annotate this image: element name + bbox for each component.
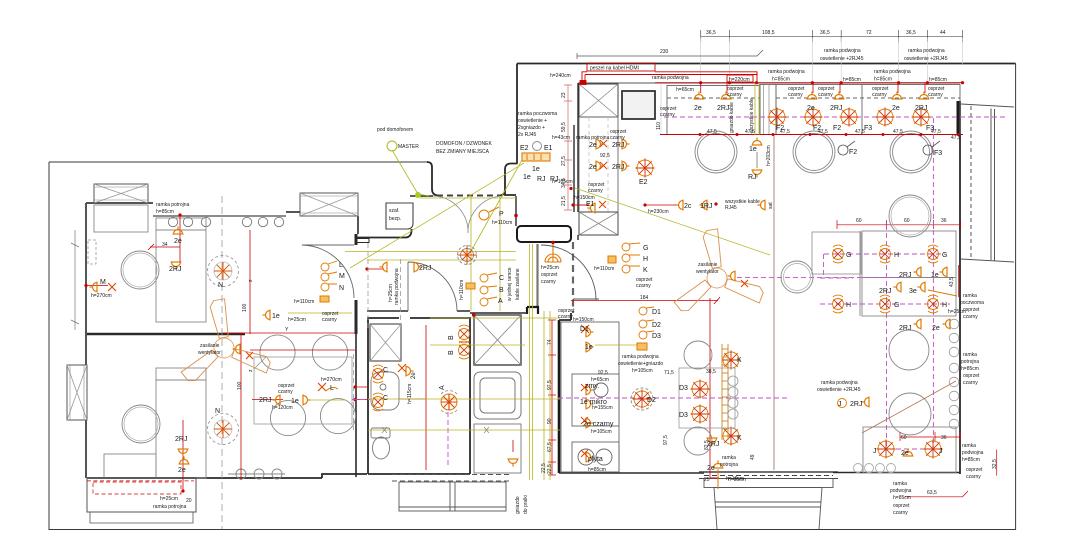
poufs kitchen [684, 341, 712, 369]
svg-text:kable zasilane: kable zasilane [515, 268, 521, 300]
svg-text:h=203cm: h=203cm [766, 145, 772, 166]
sockets bedroom1 [173, 227, 184, 235]
svg-text:100: 100 [242, 303, 248, 312]
door vestibule arcs [433, 196, 503, 233]
svg-text:2RJ: 2RJ [899, 272, 911, 279]
sockets kitchen top row [694, 92, 705, 100]
svg-text:2RJ: 2RJ [259, 397, 271, 404]
text legend G H K [643, 245, 648, 274]
svg-text:N: N [218, 282, 223, 289]
svg-text:184: 184 [640, 295, 649, 301]
svg-text:1e: 1e [291, 398, 299, 405]
svg-text:h=240cm: h=240cm [550, 73, 571, 79]
svg-text:1e: 1e [272, 313, 280, 320]
dining nook rect [254, 357, 352, 424]
svg-text:36,5: 36,5 [706, 30, 716, 36]
svg-text:ramka podwojna: ramka podwojna [908, 48, 945, 54]
svg-text:K: K [737, 435, 742, 442]
svg-text:K: K [737, 357, 742, 364]
svg-text:59,5: 59,5 [561, 122, 567, 132]
text E legend top [518, 111, 557, 138]
svg-text:63,5: 63,5 [927, 490, 937, 496]
svg-text:h=85cm: h=85cm [772, 77, 790, 83]
wall: kitchen top [517, 63, 1016, 65]
svg-text:MASTER: MASTER [398, 144, 419, 150]
svg-text:A: A [439, 385, 446, 390]
socket L orange box legend hall [320, 296, 329, 302]
sockets 2c 1RJ [676, 200, 684, 211]
svg-text:49: 49 [750, 454, 756, 460]
lamp P hall [458, 246, 477, 265]
svg-text:2RJ: 2RJ [175, 436, 187, 443]
svg-text:bezp.: bezp. [389, 216, 401, 222]
svg-text:1e: 1e [585, 344, 593, 351]
svg-text:h=85cm: h=85cm [156, 209, 174, 215]
svg-text:B: B [448, 350, 455, 355]
svg-text:2e: 2e [901, 450, 909, 457]
svg-text:h=25cm: h=25cm [388, 284, 394, 302]
socket bathroom wall pair [406, 366, 414, 377]
svg-text:F3: F3 [934, 150, 942, 157]
wall: hall-kitchen gray wall [536, 244, 538, 307]
svg-text:ramka podwojna: ramka podwojna [622, 354, 659, 360]
fridge box [622, 91, 655, 119]
svg-text:h=25cm: h=25cm [541, 265, 559, 271]
red dots top wall [699, 81, 964, 84]
text living [838, 252, 947, 457]
lamp E2 [636, 159, 655, 178]
svg-text:h=25cm: h=25cm [948, 309, 966, 315]
svg-text:60: 60 [901, 435, 907, 441]
svg-text:ramka potrojna: ramka potrojna [156, 202, 190, 208]
svg-text:h=43cm: h=43cm [552, 135, 570, 141]
svg-text:h=85cm: h=85cm [874, 77, 892, 83]
svg-text:do pralki: do pralki [523, 495, 529, 514]
red verticals left section dims [86, 215, 384, 491]
floor lamp circles living [889, 330, 929, 370]
shaft box bottom [579, 212, 618, 235]
svg-text:pod domofonem: pod domofonem [377, 127, 413, 133]
svg-text:h=25cm: h=25cm [160, 496, 178, 502]
svg-text:H: H [942, 302, 947, 309]
window left wall [67, 365, 87, 420]
svg-text:h=270cm: h=270cm [91, 293, 112, 299]
svg-text:h=120cm: h=120cm [272, 405, 293, 411]
svg-text:potrojna: potrojna [961, 359, 979, 365]
svg-text:E1: E1 [586, 201, 595, 208]
wall: kitchen bottom-left column wall [558, 320, 561, 473]
svg-text:2e: 2e [892, 105, 900, 112]
text 47,5 row [707, 129, 961, 141]
bathroom sink [371, 372, 399, 410]
svg-text:47,5: 47,5 [780, 129, 790, 135]
diagonal living [862, 381, 956, 433]
svg-text:czarny: czarny [872, 92, 887, 98]
legend C B A hall [480, 273, 497, 306]
kitchen sink unit [474, 372, 521, 419]
svg-text:2e: 2e [932, 325, 940, 332]
wall: kitchen left [505, 64, 517, 196]
svg-text:C: C [383, 395, 388, 402]
svg-text:2e: 2e [807, 105, 815, 112]
washing machine [474, 315, 521, 365]
lamps C bathroom [373, 365, 384, 383]
hall sconce socket [545, 244, 561, 262]
svg-text:B: B [448, 335, 455, 340]
socket D1 kitchen wall [586, 327, 594, 338]
svg-text:L: L [339, 262, 343, 269]
svg-text:h=85cm: h=85cm [843, 77, 861, 83]
svg-text:C: C [499, 275, 504, 282]
svg-text:2RJ: 2RJ [169, 266, 181, 273]
socket 1e / RJ island [752, 138, 763, 146]
sockets kitchen left col [596, 139, 604, 150]
svg-text:RJ: RJ [537, 176, 546, 183]
svg-text:czarny: czarny [893, 510, 908, 516]
svg-text:h=85cm: h=85cm [962, 457, 980, 463]
svg-text:RJ: RJ [550, 176, 559, 183]
svg-text:2RJ: 2RJ [915, 105, 927, 112]
living lamps row2 [833, 295, 844, 313]
red lines kitchen bottom [399, 297, 720, 478]
master circle [387, 141, 397, 151]
svg-text:zasilanie: zasilanie [200, 343, 220, 349]
svg-text:RJ45: RJ45 [725, 205, 737, 211]
svg-text:E2: E2 [520, 145, 529, 152]
svg-text:czarny: czarny [966, 474, 981, 480]
ladder kitchen [722, 344, 728, 440]
sockets dining [273, 395, 281, 406]
desk 2 [104, 454, 156, 478]
magenta dashed lines [352, 117, 1008, 467]
orange box sockets hall wall [522, 153, 550, 161]
sockets living sideboard [914, 267, 922, 278]
socket 2e balcony [713, 461, 724, 469]
svg-text:h=115cm: h=115cm [407, 384, 413, 404]
sofa rect [863, 427, 956, 473]
lamps K [722, 351, 741, 370]
lot boundary [49, 64, 1016, 530]
svg-text:2RJ: 2RJ [612, 142, 624, 149]
svg-text:2e: 2e [589, 142, 597, 149]
wall: bedroom2 bottom [87, 474, 367, 478]
svg-text:wentylator: wentylator [198, 350, 221, 356]
coat hooks bottom [228, 469, 285, 479]
svg-text:44: 44 [940, 30, 946, 36]
svg-text:DOMOFON / DZWONEK: DOMOFON / DZWONEK [436, 141, 492, 147]
svg-text:F3: F3 [864, 125, 872, 132]
lamps D3 [691, 380, 710, 399]
wall: dining right wall [355, 334, 357, 477]
sockets bedroom2 [178, 449, 189, 457]
svg-text:2RJ: 2RJ [850, 401, 862, 408]
svg-text:100: 100 [237, 381, 243, 390]
svg-text:32,5: 32,5 [992, 459, 998, 469]
shelf rect kitchen [679, 368, 735, 428]
text left section [91, 202, 339, 510]
svg-text:czarny: czarny [788, 92, 803, 98]
svg-text:h=110cm: h=110cm [294, 299, 314, 305]
svg-text:ramka: ramka [962, 443, 976, 449]
wall: hall west [356, 229, 412, 238]
svg-text:wentylator: wentylator [696, 269, 719, 275]
svg-text:oswietlenie +2RJ45: oswietlenie +2RJ45 [904, 56, 948, 62]
svg-text:czarny: czarny [610, 135, 625, 141]
wall: living right [959, 101, 961, 474]
svg-text:h=230cm: h=230cm [648, 209, 669, 215]
svg-text:2RJ: 2RJ [612, 164, 624, 171]
fan socket bedroom [233, 344, 241, 355]
socket 1e bedroom1 bottom [263, 310, 271, 321]
lamp A bathroom [441, 391, 457, 414]
svg-text:oswietlenie +2RJ45: oswietlenie +2RJ45 [817, 387, 861, 393]
balcony bedroom2 [87, 478, 196, 523]
svg-text:A: A [498, 298, 503, 305]
svg-text:oswietlenie+gniazdo: oswietlenie+gniazdo [618, 361, 663, 367]
tall cabinet [760, 85, 776, 135]
legend G H K kitchen [622, 243, 640, 273]
svg-text:wszystkie kable: wszystkie kable [749, 98, 755, 133]
svg-text:2e: 2e [589, 164, 597, 171]
svg-text:71,5: 71,5 [664, 370, 674, 376]
svg-text:21,5: 21,5 [561, 196, 567, 206]
olive verticals kitchen top [755, 83, 759, 135]
svg-text:h=110cm: h=110cm [459, 280, 465, 300]
svg-text:36,5: 36,5 [820, 30, 830, 36]
svg-text:h=110cm: h=110cm [594, 266, 614, 272]
svg-text:czarny: czarny [541, 279, 556, 285]
svg-text:h=25cm: h=25cm [288, 317, 306, 323]
wall: kitchen bottom [559, 472, 704, 474]
entrance door dashed [437, 195, 500, 197]
svg-text:ramka potrojna: ramka potrojna [576, 135, 610, 141]
svg-text:E2: E2 [639, 179, 648, 186]
svg-text:ramka podwojna: ramka podwojna [394, 268, 400, 305]
svg-text:h=85cm: h=85cm [929, 77, 947, 83]
wall: inner top wall kitchen [578, 82, 960, 84]
svg-text:47,5: 47,5 [931, 129, 941, 135]
socket washer [508, 459, 519, 467]
top dimension line [701, 30, 963, 42]
svg-text:2RJ: 2RJ [830, 105, 842, 112]
svg-text:G: G [846, 252, 851, 259]
svg-text:peszel na kabel HDMI: peszel na kabel HDMI [590, 66, 639, 72]
socket E1 [588, 203, 596, 214]
svg-text:osprzet: osprzet [893, 503, 910, 509]
olive cable lines hall [345, 150, 524, 311]
svg-text:czarny: czarny [928, 92, 943, 98]
lamps B bathroom [459, 325, 470, 343]
svg-text:czarny: czarny [322, 317, 337, 323]
svg-text:22,5: 22,5 [547, 464, 553, 474]
kitchen col cabinets [561, 322, 619, 472]
svg-text:1e: 1e [532, 166, 540, 173]
svg-text:ramka: ramka [893, 481, 907, 487]
svg-text:92,5: 92,5 [598, 370, 608, 376]
door kitchen: arc [541, 245, 599, 300]
svg-text:h=16cm: h=16cm [726, 476, 744, 482]
socket P hall top [479, 207, 499, 220]
svg-text:osprzet: osprzet [541, 272, 558, 278]
kitchen ceiling lamps F row [768, 108, 787, 127]
window 2 [300, 193, 358, 216]
svg-text:C: C [383, 367, 388, 374]
wall: shaft left edge [574, 83, 578, 240]
wall lamp F2 [838, 141, 855, 155]
svg-text:czarny: czarny [278, 389, 293, 395]
svg-text:G: G [643, 245, 648, 252]
wall: bedroom divider [87, 333, 245, 335]
text domofon [377, 127, 512, 226]
text labels top dims [660, 30, 946, 55]
svg-text:D3: D3 [652, 333, 661, 340]
svg-text:sat: sat [768, 202, 774, 209]
svg-text:K: K [643, 267, 648, 274]
svg-text:N: N [339, 285, 344, 292]
svg-text:27,5: 27,5 [561, 156, 567, 166]
svg-text:poczwoma: poczwoma [960, 300, 984, 306]
text socket labels kitchen top [694, 105, 927, 112]
wall: window2 to bedroom wall stub [357, 216, 359, 234]
svg-text:108,5: 108,5 [762, 30, 775, 36]
TV sideboard [862, 231, 956, 316]
svg-text:60: 60 [904, 218, 910, 224]
svg-text:2RJ: 2RJ [879, 288, 891, 295]
svg-text:J: J [838, 401, 842, 408]
svg-text:osprzet: osprzet [963, 373, 980, 379]
svg-text:97,5: 97,5 [663, 435, 669, 445]
svg-text:RJ: RJ [748, 174, 757, 181]
text F lamps [748, 125, 942, 181]
svg-text:2c: 2c [684, 203, 692, 210]
svg-text:czarny: czarny [727, 92, 742, 98]
svg-text:plyta: plyta [588, 456, 603, 463]
legend L M N [321, 261, 337, 291]
svg-text:osprzet: osprzet [966, 467, 983, 473]
svg-text:BEZ ZMIANY MIEJSCA: BEZ ZMIANY MIEJSCA [436, 149, 490, 155]
wardrobe rail circles [168, 217, 283, 226]
svg-text:h=65cm: h=65cm [676, 87, 694, 93]
svg-text:90: 90 [547, 418, 553, 424]
svg-text:H: H [894, 252, 899, 259]
gray dashed centerline bedrooms [221, 196, 223, 529]
svg-text:F2: F2 [849, 149, 857, 156]
text fans [198, 262, 719, 356]
speaker circles column [949, 319, 959, 429]
svg-text:230: 230 [660, 49, 669, 55]
svg-text:podwojna: podwojna [962, 450, 984, 456]
svg-text:czarny: czarny [636, 283, 651, 289]
bathroom shower box [370, 324, 401, 361]
door bedroom1: leaf and arc [302, 245, 354, 298]
dining poufs [260, 335, 356, 436]
svg-text:36: 36 [941, 435, 947, 441]
svg-text:potrojna: potrojna [720, 462, 738, 468]
svg-text:ramka podwojna: ramka podwojna [874, 69, 911, 75]
svg-text:ramka potrojna: ramka potrojna [153, 504, 187, 510]
svg-text:L: L [330, 385, 334, 392]
svg-text:zmy.: zmy. [585, 383, 599, 390]
red wire: hdmi box [580, 63, 963, 85]
svg-text:74: 74 [547, 339, 553, 345]
bed 2 [156, 368, 206, 478]
svg-text:1e: 1e [749, 146, 757, 153]
svg-text:czarny: czarny [660, 112, 675, 118]
svg-text:J: J [939, 448, 943, 455]
svg-text:47,5: 47,5 [707, 129, 717, 135]
svg-text:2e: 2e [707, 465, 715, 472]
wall: bathroom box [368, 317, 470, 474]
svg-text:M: M [339, 273, 345, 280]
socket 2e living bottom [903, 449, 914, 457]
svg-text:h=110cm: h=110cm [492, 220, 512, 226]
svg-text:h=220cm: h=220cm [729, 77, 750, 83]
shaft box top [579, 84, 618, 117]
entry closet boxes [579, 117, 618, 212]
sockets hall pair [380, 262, 388, 273]
dresser 1 [94, 205, 148, 232]
svg-text:92,5: 92,5 [600, 153, 610, 159]
svg-text:72: 72 [866, 30, 872, 36]
olive cable lines bathroom/kitchen [288, 244, 640, 480]
text kitchen left col [552, 129, 760, 215]
living lamps row1 [833, 245, 844, 263]
svg-text:2e: 2e [694, 105, 702, 112]
svg-text:1RJ: 1RJ [700, 203, 712, 210]
svg-text:P: P [499, 211, 504, 218]
window 1 [94, 184, 148, 203]
svg-text:1e mikro: 1e mikro [580, 399, 607, 406]
svg-text:H: H [846, 302, 851, 309]
svg-text:2e: 2e [174, 238, 182, 245]
wall: north wall left section [86, 202, 153, 204]
side table 1 [121, 251, 159, 289]
svg-text:czarny: czarny [558, 314, 573, 320]
svg-text:60: 60 [856, 218, 862, 224]
wall: vestibule right [500, 164, 518, 196]
svg-text:h=85cm: h=85cm [961, 366, 979, 372]
svg-text:D2: D2 [652, 322, 661, 329]
svg-text:2RJ: 2RJ [717, 105, 729, 112]
kitchen door opening dashed [572, 242, 574, 313]
wall lamp F3 [923, 141, 940, 155]
fan socket kitchen [728, 271, 736, 282]
text kitchen bottom [558, 308, 746, 483]
svg-text:25: 25 [704, 477, 710, 483]
terrace bathroom [392, 475, 509, 512]
text wall row labels [652, 69, 947, 118]
svg-text:h=105cm: h=105cm [591, 429, 612, 435]
svg-text:1e: 1e [523, 174, 531, 181]
ceiling fan kitchen [674, 229, 766, 315]
wall: living bottom [833, 472, 960, 474]
svg-text:D3: D3 [679, 385, 688, 392]
svg-text:36: 36 [941, 218, 947, 224]
svg-text:M: M [100, 279, 106, 286]
svg-text:podwojna: podwojna [890, 488, 912, 494]
svg-text:oswietlenie +: oswietlenie + [518, 118, 547, 124]
svg-text:2e: 2e [178, 467, 186, 474]
gray circles near ladder [728, 376, 738, 419]
left dim line [71, 230, 79, 330]
text ramka podwojna top [820, 48, 948, 62]
svg-text:E1: E1 [544, 145, 553, 152]
red vertical dim chain kitchen left [564, 85, 572, 210]
svg-text:ramka poczwoma: ramka poczwoma [518, 111, 557, 117]
svg-text:czarny: czarny [818, 92, 833, 98]
kitchen lower cabinet [474, 424, 521, 473]
svg-text:ramka podwojna: ramka podwojna [768, 69, 805, 75]
